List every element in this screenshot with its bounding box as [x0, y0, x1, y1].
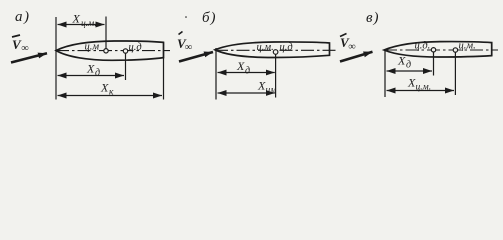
- svg-text:∞: ∞: [185, 42, 192, 53]
- cm point a: [104, 49, 108, 53]
- chord line b: [215, 49, 336, 51]
- cm-cd point b: [273, 50, 278, 55]
- dimension X_d b: [218, 72, 275, 74]
- svg-text:V: V: [12, 37, 22, 52]
- extension line trailing edge a: [163, 58, 165, 100]
- extension line cd v: [433, 52, 435, 76]
- extension line cm/cd b: [275, 55, 277, 98]
- V-infinity arrow b: [179, 52, 213, 62]
- extension line leading edge a: [55, 17, 57, 100]
- dimension X_cm v: [387, 90, 455, 92]
- V-infinity arrow v: [340, 52, 373, 62]
- airfoil b: [215, 42, 330, 58]
- svg-text:ц.м.: ц.м.: [459, 41, 476, 52]
- extension line leading edge b: [215, 48, 217, 100]
- chord line a: [56, 50, 170, 52]
- extension line leading edge v: [384, 50, 386, 97]
- dimension X_d a: [58, 75, 125, 77]
- airfoil a: [56, 41, 164, 60]
- chord line v: [384, 49, 498, 51]
- dimension X_k a: [58, 95, 163, 97]
- svg-text:д: д: [95, 68, 100, 79]
- svg-text:ц.м: ц.м: [85, 42, 100, 53]
- svg-text:∞: ∞: [349, 42, 356, 53]
- extension line cm a (up from circle): [105, 17, 107, 49]
- vector bar over V (v): [340, 34, 347, 37]
- svg-text:∞: ∞: [22, 43, 29, 54]
- svg-text:X: X: [397, 54, 406, 68]
- svg-text:в): в): [366, 10, 380, 26]
- V-infinity label b: [177, 36, 192, 53]
- svg-text:X: X: [86, 62, 95, 76]
- svg-text:д: д: [245, 66, 250, 77]
- svg-text:д: д: [406, 60, 411, 71]
- extension line cm v: [454, 52, 456, 95]
- vector bar over V (b): [179, 32, 183, 35]
- svg-text:ц.д: ц.д: [129, 42, 142, 53]
- V-infinity arrow a: [11, 53, 47, 62]
- svg-text:ц.м.: ц.м.: [416, 83, 432, 93]
- V-infinity label v: [340, 35, 356, 53]
- cd point a: [123, 49, 127, 53]
- svg-text:ц.м.: ц.м.: [257, 42, 274, 53]
- dimension X_cm b: [218, 92, 275, 94]
- svg-text:б): б): [202, 10, 217, 26]
- svg-text:ц.д: ц.д: [280, 42, 293, 53]
- svg-text:X: X: [72, 12, 81, 26]
- cm point v: [453, 48, 457, 52]
- stray dot: [185, 16, 187, 18]
- dimension X_d v: [387, 70, 433, 72]
- V-infinity label a: [12, 37, 29, 54]
- svg-text:к: к: [109, 88, 114, 98]
- svg-text:ц.м.: ц.м.: [81, 19, 97, 29]
- svg-text:цм: цм: [266, 86, 277, 96]
- svg-text:X: X: [236, 59, 245, 73]
- dimension X_cm a: [58, 24, 105, 26]
- cd point v: [431, 48, 435, 52]
- svg-text:а): а): [15, 9, 31, 25]
- vector bar over V (a): [12, 35, 20, 37]
- svg-text:X: X: [100, 81, 109, 95]
- svg-text:ц.д.: ц.д.: [415, 41, 431, 52]
- airfoil v: [384, 42, 492, 57]
- extension line cd a (down from circle): [125, 53, 127, 80]
